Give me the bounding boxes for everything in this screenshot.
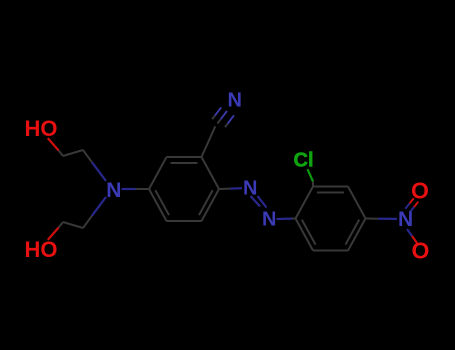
wire ring1-N1 blue half	[231, 187, 243, 190]
wire Cl green part	[308, 169, 314, 181]
wire C2-N blue half lower	[92, 197, 106, 216]
wire ring2 edge L-TL	[296, 187, 314, 219]
svg-text:O: O	[411, 178, 429, 204]
wire N2-ring2 blue	[277, 218, 293, 221]
wire ring1 to nitrile C	[202, 126, 216, 157]
wire ring1 edge R-BR	[202, 189, 220, 221]
lower hydroxyethyl arm	[48, 197, 106, 240]
nitro group bonds	[366, 198, 419, 243]
wire O-C1 red part lower	[48, 228, 59, 240]
chlorine bond	[308, 169, 314, 186]
benzene ring 1 (left, aminophenyl)	[149, 157, 219, 221]
wire ring1 edge BL-L	[149, 189, 167, 221]
wire ring2 edge BR-BL	[313, 250, 348, 252]
wire ring2-N blue half	[378, 218, 397, 220]
wire C2-N gray half upper	[83, 150, 92, 162]
wire N-ring1 blue half	[122, 188, 136, 190]
wire ring1 inner double top	[171, 162, 198, 164]
wire C2-N gray half lower	[83, 216, 92, 228]
svg-text:N: N	[262, 209, 276, 231]
wire N=O double line b red	[414, 202, 418, 207]
svg-text:N: N	[228, 90, 242, 112]
svg-text:Cl: Cl	[294, 150, 314, 172]
wire C1-C2 lower	[63, 222, 83, 228]
wire ring2 edge BL-L	[296, 219, 314, 251]
wire O-C1 red part upper	[48, 138, 59, 150]
wire C1-C2 upper	[63, 150, 83, 156]
wire nitrile triple line1 gray tail	[212, 116, 215, 120]
svg-text:N: N	[398, 208, 413, 231]
wire N-O single red half	[412, 236, 417, 243]
wire ring1 edge L-TL	[149, 157, 167, 189]
wire ring1 inner double left-bottom	[155, 190, 169, 215]
wire ring1 edge BR-BL	[167, 220, 202, 222]
wire N-O single navy half	[407, 229, 412, 236]
wire ring1-N1 gray half	[219, 188, 231, 190]
wire ring2 inner double right-bottom	[346, 220, 360, 245]
wire N=O double line a navy	[405, 203, 409, 208]
wire nitrile triple line2 gray tail	[218, 119, 221, 123]
wire ring1 inner double right-bottom	[199, 190, 213, 215]
wire N=O double line a red	[410, 198, 414, 203]
svg-text:O: O	[412, 238, 430, 264]
wire N2-ring2 gray tail	[292, 218, 296, 220]
benzene ring 2 (right, chloronitrophenyl)	[296, 187, 366, 251]
upper hydroxyethyl arm	[48, 138, 106, 181]
nitrile group	[202, 107, 235, 157]
wire O-C1 gray tail lower	[59, 222, 63, 228]
wire nitrile triple line2 blue	[221, 111, 227, 119]
wire N1=N2 double line a	[258, 196, 267, 208]
svg-text:HO: HO	[25, 237, 58, 262]
svg-text:N: N	[106, 179, 121, 202]
wire ring2-N gray half	[366, 218, 379, 220]
wire O-C1 gray tail upper	[59, 151, 63, 157]
wire nitrile triple line3 blue	[228, 115, 234, 123]
wire ring1 edge TR-R	[202, 157, 220, 189]
wire ring2 inner double left-bottom	[302, 220, 316, 245]
wire ring2 inner double top	[317, 192, 344, 194]
wire N1=N2 double line b	[251, 196, 261, 207]
wire nitrile triple line3 gray tail	[225, 124, 228, 128]
wire nitrile triple line1 blue	[215, 107, 221, 115]
wire C2-N blue half upper	[92, 162, 106, 181]
azo bridge	[219, 188, 296, 219]
svg-text:HO: HO	[25, 116, 58, 141]
wire ring2 edge TL-TR	[313, 186, 348, 188]
wire Cl gray tail	[312, 182, 314, 187]
svg-text:N: N	[243, 178, 257, 200]
wire N=O double line b navy	[410, 207, 414, 212]
wire ring2 edge R-BR	[348, 219, 366, 251]
amine N to ring1 bond	[122, 188, 150, 190]
wire ring2 edge TR-R	[348, 187, 366, 219]
wire N-ring1 gray half	[136, 188, 150, 190]
wire ring1 edge TL-TR	[167, 156, 202, 158]
